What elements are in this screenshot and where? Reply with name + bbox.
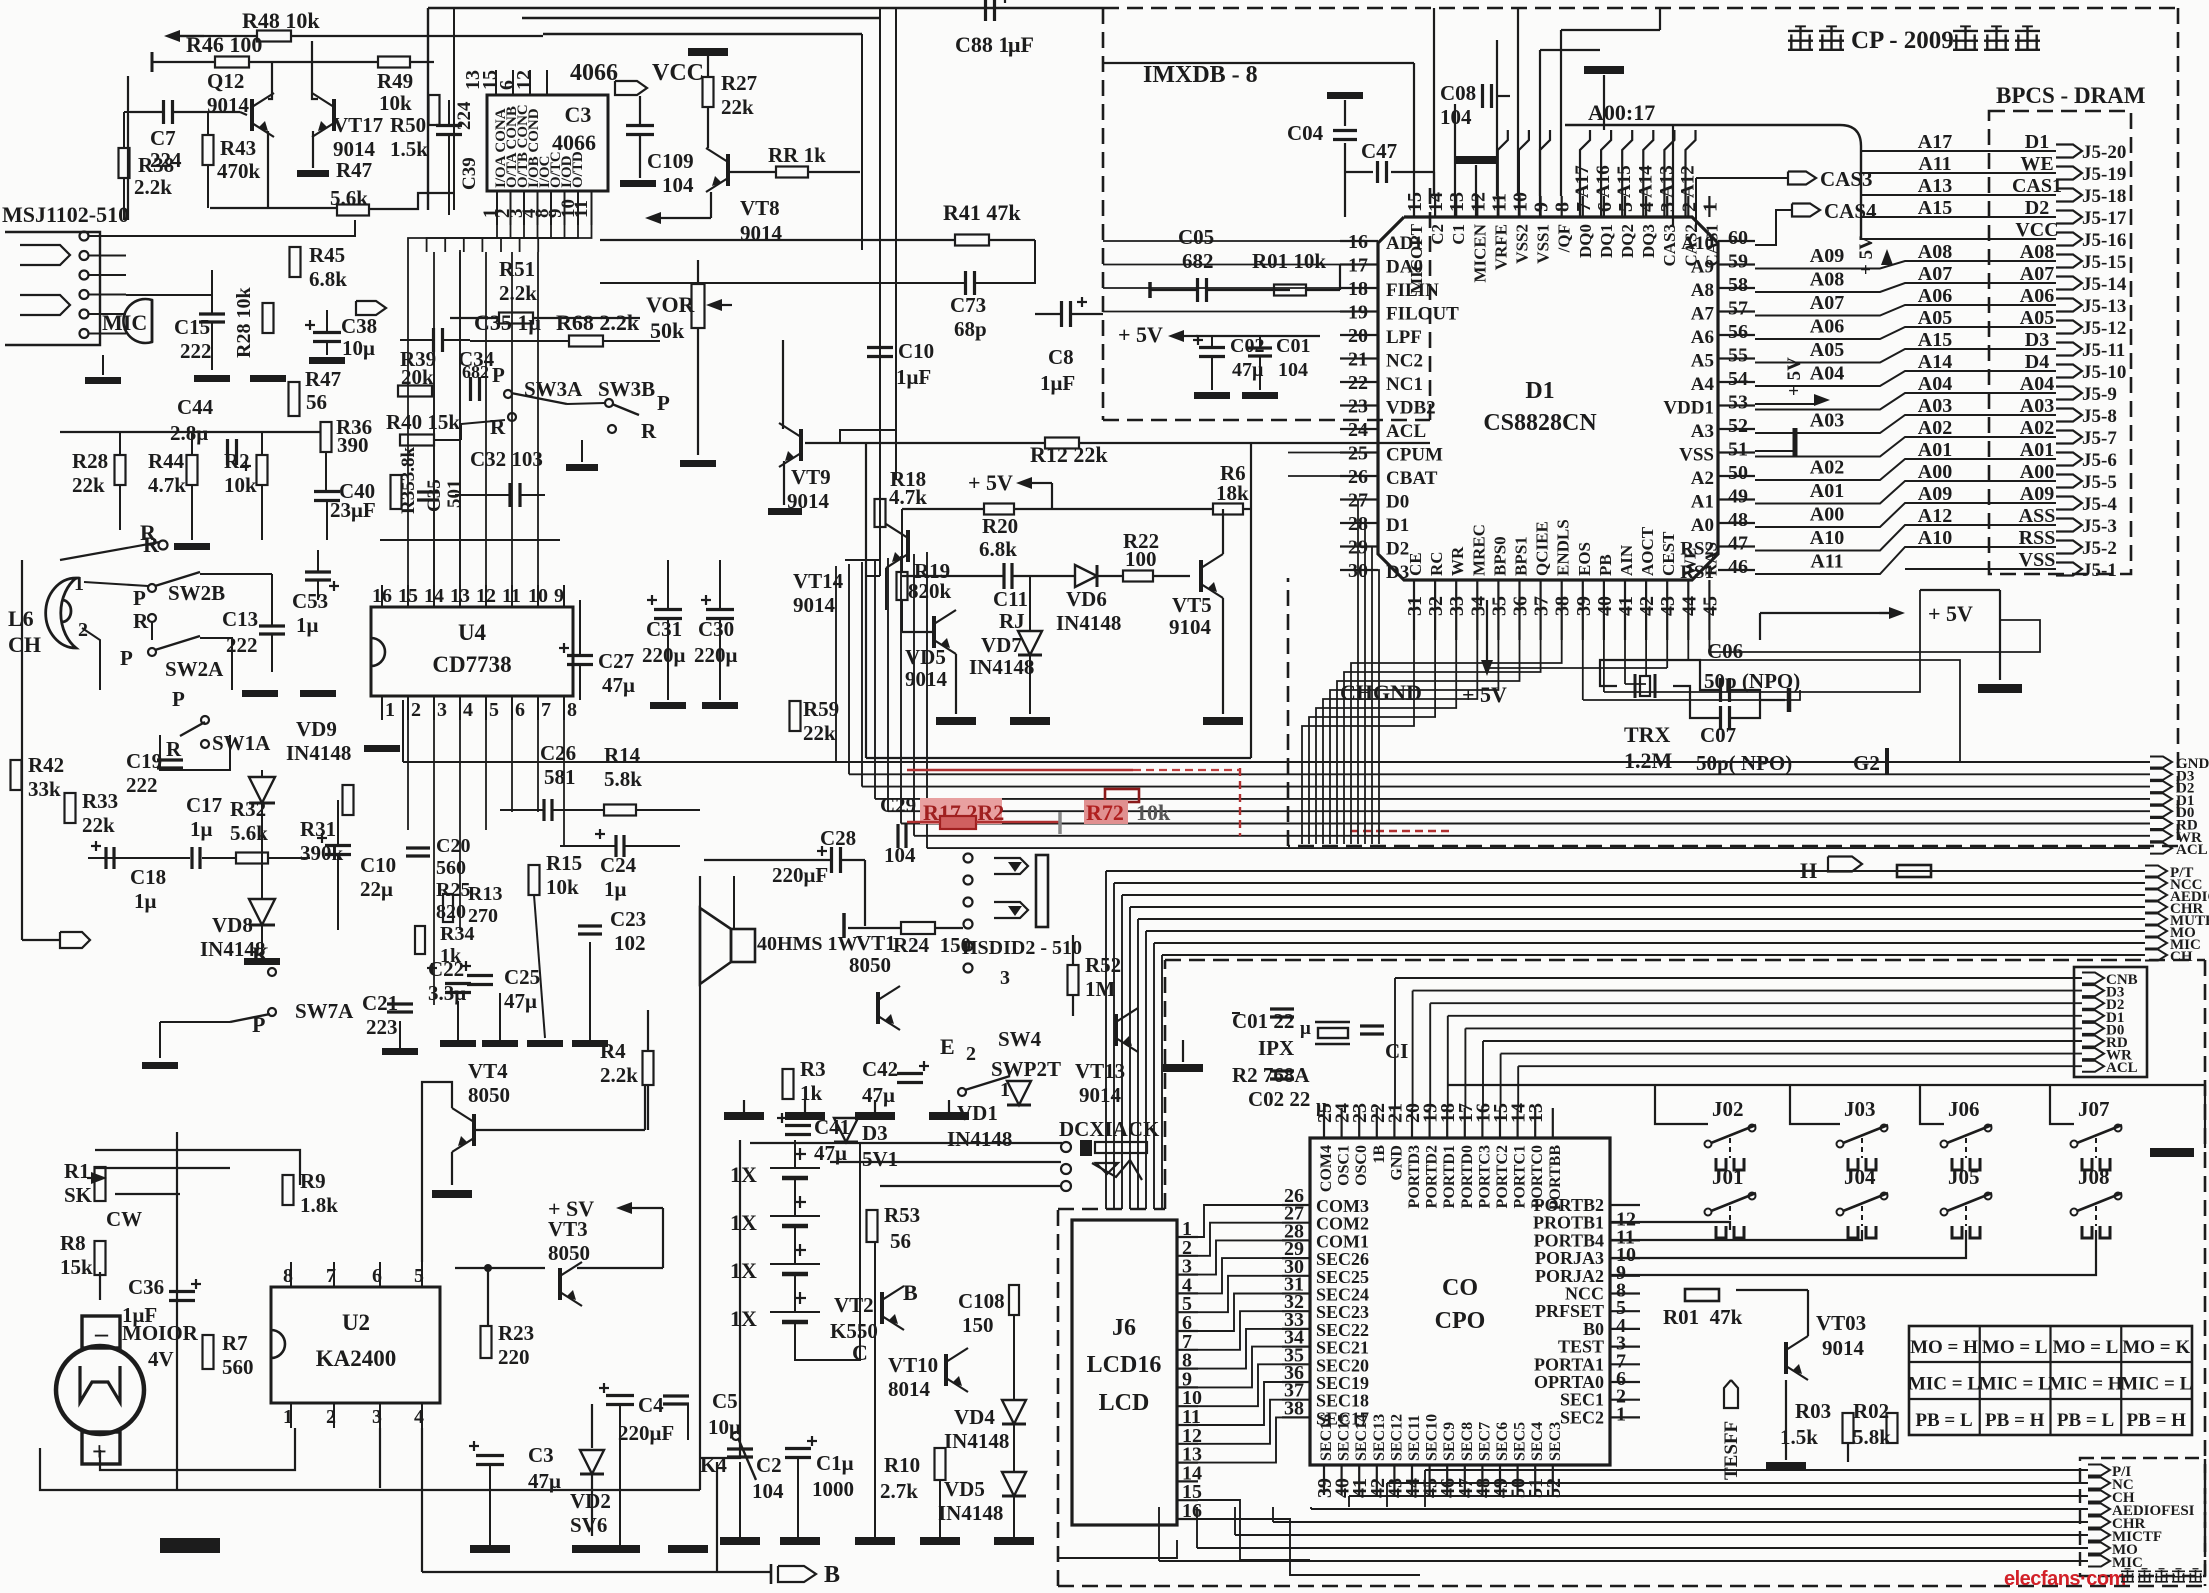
svg-text:R28 10k: R28 10k bbox=[233, 287, 255, 358]
wire speaker net bbox=[699, 876, 701, 1458]
svg-text:6: 6 bbox=[515, 699, 525, 721]
svg-text:J6: J6 bbox=[1112, 1315, 1136, 1341]
ground VOR bbox=[680, 460, 716, 467]
svg-text:LCD: LCD bbox=[1099, 1390, 1150, 1416]
svg-text:22: 22 bbox=[1348, 372, 1368, 394]
svg-text:7: 7 bbox=[541, 699, 551, 721]
svg-text:3: 3 bbox=[372, 1406, 382, 1428]
svg-text:CH: CH bbox=[8, 632, 41, 657]
svg-text:R42: R42 bbox=[28, 753, 64, 777]
svg-text:μ: μ bbox=[1300, 1018, 1311, 1039]
svg-text:C36: C36 bbox=[128, 1275, 164, 1299]
svg-text:A04: A04 bbox=[1918, 373, 1952, 395]
svg-text:A03: A03 bbox=[2020, 395, 2054, 417]
svg-text:H: H bbox=[1800, 858, 1817, 883]
D1 pin 12 MICEN bbox=[1476, 196, 1478, 217]
svg-text:R24 150: R24 150 bbox=[893, 933, 971, 957]
svg-text:C04: C04 bbox=[1287, 121, 1324, 145]
svg-text:MSJ1102-510: MSJ1102-510 bbox=[2, 202, 129, 227]
svg-text:45: 45 bbox=[1699, 596, 1721, 616]
svg-text:56: 56 bbox=[890, 1229, 911, 1253]
svg-text:5.6k: 5.6k bbox=[330, 186, 368, 210]
wire VT9 collector bbox=[782, 340, 784, 429]
svg-text:MREC: MREC bbox=[1469, 524, 1488, 576]
svg-text:A07: A07 bbox=[1810, 292, 1844, 314]
CO pin 9 PORJA2 bbox=[1610, 1275, 1640, 1277]
svg-text:J5-3: J5-3 bbox=[2082, 516, 2117, 537]
svg-text:52: 52 bbox=[1728, 415, 1748, 437]
svg-text:K: K bbox=[252, 942, 269, 967]
bus MUTE bbox=[1138, 918, 2145, 920]
bus line A17 bbox=[1580, 130, 1590, 217]
CO pin 2 SEC1 bbox=[1610, 1399, 1640, 1401]
svg-text:1μF: 1μF bbox=[896, 365, 931, 389]
svg-text:10: 10 bbox=[1510, 192, 1532, 212]
CO pin 41 SEC14 bbox=[1358, 1465, 1360, 1495]
D1 pin 32 RC bbox=[1434, 580, 1436, 640]
svg-text:MO = H: MO = H bbox=[1910, 1337, 1978, 1358]
svg-text:KA2400: KA2400 bbox=[316, 1346, 397, 1371]
svg-text:J04: J04 bbox=[1844, 1165, 1876, 1189]
CO pin 50 SEC5 bbox=[1516, 1465, 1518, 1495]
svg-text:J5-12: J5-12 bbox=[2082, 318, 2126, 339]
bus D2 bbox=[862, 786, 2150, 788]
svg-text:A09: A09 bbox=[2020, 483, 2054, 505]
svg-text:A00: A00 bbox=[2020, 461, 2054, 483]
svg-text:VT5: VT5 bbox=[1172, 593, 1212, 617]
svg-text:6: 6 bbox=[1594, 202, 1616, 212]
svg-text:P: P bbox=[492, 363, 505, 387]
svg-text:+ 5V: + 5V bbox=[1856, 236, 1877, 275]
svg-text:52: 52 bbox=[1543, 1478, 1565, 1498]
svg-text:2: 2 bbox=[326, 1406, 336, 1428]
svg-text:2: 2 bbox=[966, 1043, 976, 1065]
D1 pin 28 D1 bbox=[1340, 522, 1378, 524]
svg-text:C17: C17 bbox=[186, 793, 222, 817]
output pin AEDIOFESI bbox=[2088, 1504, 2110, 1515]
svg-text:15: 15 bbox=[398, 585, 418, 607]
svg-text:10k: 10k bbox=[224, 473, 257, 497]
svg-text:R15: R15 bbox=[546, 851, 582, 875]
ground above pin12 bbox=[1475, 165, 1477, 217]
wires C3 bottom to bus bbox=[408, 225, 497, 252]
svg-text:J5-2: J5-2 bbox=[2082, 538, 2117, 559]
svg-text:C08: C08 bbox=[1440, 81, 1476, 105]
svg-text:J5-18: J5-18 bbox=[2082, 186, 2126, 207]
grounds mid bbox=[936, 717, 976, 725]
svg-text:CBAT: CBAT bbox=[1386, 468, 1438, 489]
svg-text:+ 5V: + 5V bbox=[1928, 601, 1973, 626]
wire R47 row bbox=[210, 207, 337, 209]
CO pin 39 SEC16 bbox=[1323, 1465, 1325, 1495]
svg-text:A04: A04 bbox=[1810, 363, 1844, 385]
resistor R50 body bbox=[429, 95, 440, 125]
D1 pin 44 WE bbox=[1687, 580, 1689, 640]
D1 pin 37 QCIEE bbox=[1539, 580, 1541, 640]
grounds bottom caps bbox=[382, 1048, 418, 1055]
svg-text:L6: L6 bbox=[8, 606, 34, 631]
J6 pin 6 bbox=[1177, 1330, 1198, 1332]
bus GND bbox=[836, 761, 2150, 763]
svg-text:R9: R9 bbox=[300, 1169, 326, 1193]
J6 pin 9 bbox=[1177, 1386, 1198, 1388]
svg-text:102: 102 bbox=[614, 931, 646, 955]
U2 pin 1 bbox=[290, 1403, 292, 1428]
svg-text:C39: C39 bbox=[459, 157, 480, 190]
CO pin 47 SEC8 bbox=[1464, 1465, 1466, 1495]
wire ipx box bbox=[1232, 1012, 1240, 1014]
D1 pin 38 ENDLS bbox=[1561, 580, 1563, 640]
svg-text:24: 24 bbox=[1348, 419, 1368, 441]
svg-text:682: 682 bbox=[1182, 249, 1214, 273]
svg-text:7: 7 bbox=[326, 1265, 336, 1287]
D1 pin 59 A9 bbox=[1718, 263, 1755, 265]
svg-text:A0: A0 bbox=[1691, 515, 1714, 536]
svg-text:A05: A05 bbox=[1810, 339, 1844, 361]
J6 pin 14 bbox=[1177, 1480, 1198, 1482]
svg-text:VRFE: VRFE bbox=[1491, 224, 1510, 270]
svg-text:C25: C25 bbox=[504, 965, 540, 989]
bus row J5-7 bbox=[1755, 437, 2056, 457]
wires output left rise bbox=[1424, 1470, 1426, 1507]
svg-text:J5-19: J5-19 bbox=[2082, 164, 2126, 185]
J6 pin 2 bbox=[1177, 1255, 1198, 1257]
svg-text:C01 22: C01 22 bbox=[1232, 1009, 1294, 1033]
wire R38 bbox=[123, 112, 125, 148]
dc jack bbox=[1061, 1142, 1071, 1152]
svg-text:C44: C44 bbox=[177, 395, 214, 419]
svg-text:A4: A4 bbox=[1691, 374, 1715, 395]
svg-text:36: 36 bbox=[1510, 596, 1532, 616]
svg-text:C18: C18 bbox=[130, 865, 166, 889]
svg-text:C13: C13 bbox=[222, 607, 258, 631]
svg-text:10k: 10k bbox=[379, 91, 412, 115]
svg-text:D4: D4 bbox=[2025, 351, 2049, 373]
svg-text:SEC16: SEC16 bbox=[1318, 1414, 1335, 1461]
D1 pin 27 D0 bbox=[1340, 498, 1378, 500]
D1 pin 21 NC2 bbox=[1340, 357, 1378, 359]
wire A00:17 bus bbox=[1565, 124, 1840, 126]
svg-text:104: 104 bbox=[752, 1479, 784, 1503]
svg-text:R12 22k: R12 22k bbox=[1030, 442, 1108, 467]
svg-text:9014: 9014 bbox=[740, 221, 783, 245]
svg-text:C1μ: C1μ bbox=[816, 1451, 854, 1475]
svg-text:A6: A6 bbox=[1691, 327, 1714, 348]
svg-text:J06: J06 bbox=[1948, 1097, 1980, 1121]
svg-text:220μF: 220μF bbox=[618, 1421, 674, 1445]
wire L6 pin2 bbox=[82, 628, 100, 690]
svg-text:5: 5 bbox=[1615, 202, 1637, 212]
svg-text:PORTC3: PORTC3 bbox=[1476, 1145, 1493, 1208]
svg-text:8014: 8014 bbox=[888, 1377, 931, 1401]
svg-text:682: 682 bbox=[462, 362, 489, 382]
svg-text:J05: J05 bbox=[1948, 1165, 1980, 1189]
output pin MIC bbox=[2088, 1556, 2110, 1567]
U4 pin 1 bbox=[381, 696, 383, 720]
ground R28 bbox=[250, 375, 286, 382]
svg-text:U4: U4 bbox=[458, 620, 487, 645]
IC D1 CS8828CN body bbox=[1378, 217, 1718, 580]
wire C47 bbox=[1391, 171, 1434, 173]
svg-text:32: 32 bbox=[1425, 596, 1447, 616]
svg-text:TESFF: TESFF bbox=[1721, 1421, 1742, 1480]
CNB pin D0 bbox=[2082, 1023, 2104, 1034]
svg-text:C23: C23 bbox=[610, 907, 646, 931]
wire top bus bbox=[428, 7, 1103, 9]
svg-text:/QF: /QF bbox=[1555, 224, 1574, 253]
svg-text:A12: A12 bbox=[1678, 165, 1699, 198]
svg-text:A11: A11 bbox=[1918, 153, 1951, 175]
svg-text:820: 820 bbox=[436, 901, 466, 923]
wire D1 pin11 up bbox=[1496, 40, 1498, 196]
svg-text:IN4148: IN4148 bbox=[938, 1501, 1003, 1525]
svg-text:11: 11 bbox=[502, 585, 521, 607]
svg-text:C42: C42 bbox=[862, 1057, 898, 1081]
tag arrow left bbox=[60, 932, 90, 948]
svg-text:R38: R38 bbox=[138, 153, 174, 177]
CO pin 3 TEST bbox=[1610, 1345, 1640, 1347]
svg-text:VSS1: VSS1 bbox=[1534, 224, 1553, 264]
svg-text:C10: C10 bbox=[360, 853, 396, 877]
ground R27 bbox=[707, 56, 709, 77]
CO pin 16 PORTC3 bbox=[1481, 1108, 1483, 1138]
svg-text:A10: A10 bbox=[1918, 527, 1952, 549]
svg-text:22k: 22k bbox=[721, 95, 754, 119]
jack contact bbox=[80, 271, 89, 280]
D1 pin 49 A1 bbox=[1718, 498, 1755, 500]
svg-text:SEC13: SEC13 bbox=[1371, 1414, 1388, 1461]
jack contact bbox=[80, 329, 89, 338]
svg-text:54: 54 bbox=[1728, 368, 1748, 390]
output pin NC bbox=[2088, 1478, 2110, 1489]
svg-text:D1: D1 bbox=[1386, 515, 1409, 536]
svg-text:PORTD0: PORTD0 bbox=[1459, 1145, 1476, 1208]
red resistor R72 bbox=[1105, 789, 1139, 802]
CO pin 20 PORTD3 bbox=[1411, 1108, 1413, 1138]
bus row J5-16 bbox=[1861, 238, 2056, 240]
svg-text:581: 581 bbox=[544, 765, 576, 789]
svg-text:C5: C5 bbox=[712, 1389, 738, 1413]
svg-text:38: 38 bbox=[1284, 1397, 1304, 1419]
wire C7 bbox=[130, 111, 163, 113]
bus row J5-6 bbox=[1755, 459, 2056, 480]
jack body bar bbox=[1036, 855, 1048, 927]
CNB pin D3 bbox=[2082, 985, 2104, 996]
svg-text:VT2: VT2 bbox=[834, 1293, 874, 1317]
bus row J5-13 bbox=[1755, 305, 2056, 316]
svg-text:22k: 22k bbox=[803, 721, 836, 745]
bus row J5-17 bbox=[1861, 216, 2056, 218]
bus line A12 bbox=[1686, 130, 1696, 217]
svg-text:VT13: VT13 bbox=[1075, 1059, 1125, 1083]
bus row J5-1 bbox=[1905, 568, 2056, 570]
svg-text:J5-7: J5-7 bbox=[2082, 428, 2117, 449]
CO pin 40 SEC15 bbox=[1340, 1465, 1342, 1495]
svg-text:PORTC1: PORTC1 bbox=[1512, 1145, 1529, 1208]
svg-text:R52: R52 bbox=[1085, 953, 1121, 977]
D1 pin 14 C2 bbox=[1434, 196, 1436, 217]
svg-text:820k: 820k bbox=[908, 579, 952, 603]
long wire rows lower-mid bbox=[403, 761, 836, 763]
svg-text:SEC3: SEC3 bbox=[1547, 1422, 1564, 1461]
svg-text:13: 13 bbox=[450, 585, 470, 607]
CO pin 11 PORTB4 bbox=[1610, 1239, 1640, 1241]
svg-text:R47: R47 bbox=[336, 158, 372, 182]
D1 pin 47 RS2 bbox=[1718, 545, 1755, 547]
svg-text:VD9: VD9 bbox=[296, 717, 337, 741]
diode VD1 IN4148 bbox=[1007, 1081, 1031, 1105]
J6 pin 13 bbox=[1177, 1461, 1198, 1463]
D1 pin 36 BPS1 bbox=[1518, 580, 1520, 640]
wire top bus 2 bbox=[522, 17, 880, 19]
svg-text:68p: 68p bbox=[954, 317, 987, 341]
svg-text:38: 38 bbox=[1552, 596, 1574, 616]
svg-text:VD4: VD4 bbox=[954, 1405, 995, 1429]
wire SW2B out bbox=[200, 573, 272, 575]
D1 pin 5 DQ2 bbox=[1624, 196, 1626, 217]
svg-text:R46 100: R46 100 bbox=[186, 32, 262, 57]
svg-text:C88 1: C88 1 bbox=[955, 32, 1009, 57]
svg-text:CPUM: CPUM bbox=[1386, 445, 1443, 466]
svg-text:PB = H: PB = H bbox=[2127, 1410, 2187, 1431]
bus NCC bbox=[1114, 882, 2145, 884]
svg-text:A16: A16 bbox=[1593, 165, 1614, 198]
svg-text:D0: D0 bbox=[1386, 492, 1409, 513]
svg-text:1X: 1X bbox=[730, 1162, 757, 1187]
svg-text:51: 51 bbox=[1728, 439, 1748, 461]
svg-text:9: 9 bbox=[1531, 202, 1553, 212]
svg-text:R02: R02 bbox=[1853, 1399, 1889, 1423]
D1 pin 52 A3 bbox=[1718, 428, 1755, 430]
svg-text:15k: 15k bbox=[60, 1255, 93, 1279]
svg-text:DQ1: DQ1 bbox=[1597, 224, 1616, 258]
CO pin 32 SEC23 bbox=[1282, 1310, 1310, 1312]
svg-text:9014: 9014 bbox=[1079, 1083, 1122, 1107]
CO pin 15 PORTC2 bbox=[1499, 1108, 1501, 1138]
svg-text:MO = K: MO = K bbox=[2122, 1337, 2190, 1358]
svg-text:A9: A9 bbox=[1691, 257, 1714, 278]
wire D1 pin10 up bbox=[1517, 8, 1519, 196]
svg-text:J5-4: J5-4 bbox=[2082, 494, 2117, 515]
D1 pin 34 MREC bbox=[1476, 580, 1478, 640]
J6 pin 8 bbox=[1177, 1367, 1198, 1369]
red wire watermark bbox=[907, 769, 1133, 772]
ground C04 bbox=[1327, 92, 1363, 99]
svg-text:10k: 10k bbox=[1136, 800, 1171, 825]
svg-text:SEC8: SEC8 bbox=[1459, 1422, 1476, 1461]
wires U2 top bbox=[95, 1167, 230, 1169]
svg-text:220: 220 bbox=[498, 1345, 530, 1369]
bus D3 bbox=[849, 773, 2150, 775]
svg-text:C35 1μ: C35 1μ bbox=[474, 310, 541, 335]
svg-text:11: 11 bbox=[1488, 193, 1510, 212]
CO pin 13 PORTC0 bbox=[1534, 1108, 1536, 1138]
svg-text:G2: G2 bbox=[1853, 751, 1880, 775]
svg-text:MO = L: MO = L bbox=[1982, 1337, 2048, 1358]
wire SW2A out bbox=[200, 638, 232, 690]
ground VT03 bbox=[1785, 1380, 1787, 1460]
svg-text:6: 6 bbox=[372, 1265, 382, 1287]
svg-text:B: B bbox=[903, 1280, 918, 1305]
wires D1 lower-left pins bbox=[1288, 452, 1340, 454]
svg-text:IN4148: IN4148 bbox=[944, 1429, 1009, 1453]
svg-text:A08: A08 bbox=[1810, 269, 1844, 291]
svg-text:MIC = L: MIC = L bbox=[1979, 1374, 2051, 1395]
svg-text:C20: C20 bbox=[436, 835, 470, 857]
svg-text:DQ2: DQ2 bbox=[1618, 224, 1637, 258]
svg-text:SEC7: SEC7 bbox=[1476, 1422, 1493, 1461]
ground C31 C30 bbox=[650, 702, 686, 709]
wire jack row4 bbox=[126, 270, 212, 295]
svg-text:VT9: VT9 bbox=[791, 465, 831, 489]
svg-text:SEC6: SEC6 bbox=[1494, 1422, 1511, 1461]
svg-text:A01: A01 bbox=[2020, 439, 2054, 461]
wires CNB left drop bbox=[1394, 978, 1396, 1108]
svg-text:VD7: VD7 bbox=[981, 633, 1022, 657]
svg-text:9: 9 bbox=[554, 585, 564, 607]
wires U2 pins 3 4 down bbox=[379, 1428, 381, 1488]
wire top bus 3 bbox=[543, 33, 862, 35]
svg-text:R3: R3 bbox=[800, 1057, 826, 1081]
CNB pin D1 bbox=[2082, 1010, 2104, 1021]
CO pin 17 PORTD0 bbox=[1464, 1108, 1466, 1138]
svg-text:560: 560 bbox=[222, 1355, 254, 1379]
svg-text:14: 14 bbox=[424, 585, 444, 607]
svg-text:CPO: CPO bbox=[1435, 1308, 1486, 1334]
svg-text:41: 41 bbox=[1615, 596, 1637, 616]
CNB pin D2 bbox=[2082, 998, 2104, 1009]
svg-text:RAS: RAS bbox=[1701, 542, 1720, 576]
svg-text:B: B bbox=[824, 1562, 840, 1588]
svg-text:K4: K4 bbox=[700, 1453, 727, 1477]
svg-text:C: C bbox=[852, 1340, 868, 1365]
wires TRX bbox=[1600, 660, 1720, 690]
tag H bbox=[1828, 857, 1862, 872]
svg-text:10μ: 10μ bbox=[342, 336, 375, 360]
svg-text:9014: 9014 bbox=[793, 593, 836, 617]
svg-text:R53: R53 bbox=[884, 1203, 920, 1227]
svg-text:VD8: VD8 bbox=[212, 913, 253, 937]
bus row J5-2 bbox=[1755, 547, 2056, 574]
tag mid bbox=[356, 301, 386, 315]
svg-text:3: 3 bbox=[1000, 967, 1010, 989]
svg-text:SW2B: SW2B bbox=[168, 581, 225, 605]
D1 pin 35 BPS0 bbox=[1497, 580, 1499, 640]
svg-text:J5-17: J5-17 bbox=[2082, 208, 2127, 229]
svg-text:A2: A2 bbox=[1691, 468, 1714, 489]
svg-text:R50: R50 bbox=[390, 113, 426, 137]
svg-text:A12: A12 bbox=[1918, 505, 1952, 527]
svg-text:16: 16 bbox=[372, 585, 392, 607]
svg-text:A05: A05 bbox=[2020, 307, 2054, 329]
U4 pin 11 bbox=[511, 585, 513, 607]
svg-text:5: 5 bbox=[414, 1265, 424, 1287]
battery wires bbox=[794, 1178, 796, 1216]
svg-text:R20: R20 bbox=[982, 514, 1018, 538]
svg-text:VT17: VT17 bbox=[333, 113, 383, 137]
CO pin PORTB2 bbox=[1610, 1204, 1640, 1206]
svg-text:MO = L: MO = L bbox=[2053, 1337, 2119, 1358]
wires bundle2 left drop bbox=[1105, 871, 1107, 1209]
D1 pin 8 /QF bbox=[1561, 196, 1563, 217]
svg-text:53: 53 bbox=[1728, 392, 1748, 414]
svg-text:ENDLS: ENDLS bbox=[1554, 519, 1573, 576]
svg-text:R51: R51 bbox=[499, 257, 535, 281]
svg-text:R43: R43 bbox=[220, 136, 256, 160]
svg-text:CAS3: CAS3 bbox=[1820, 167, 1873, 191]
wire left vertical 2 bbox=[453, 8, 455, 210]
svg-text:MIC = L: MIC = L bbox=[2120, 1374, 2192, 1395]
